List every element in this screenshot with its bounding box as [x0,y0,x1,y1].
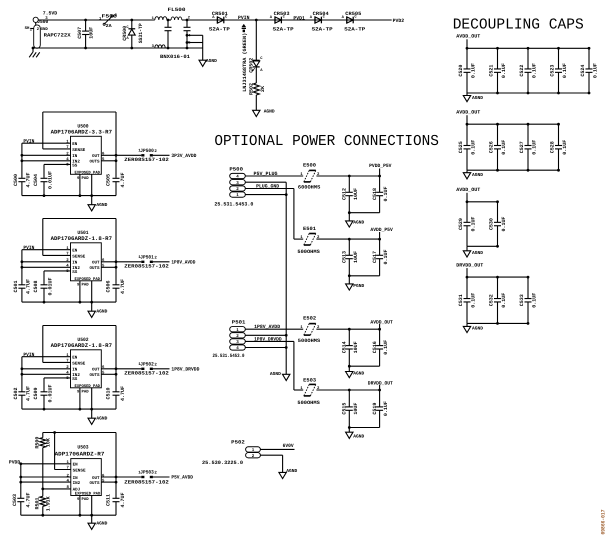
svg-text:DRVDD_OUT: DRVDD_OUT [368,380,393,386]
svg-text:PVD2: PVD2 [393,18,405,24]
svg-text:C505: C505 [106,174,112,186]
ground AGND of U500 [88,196,108,211]
svg-text:0.1UF: 0.1UF [501,140,507,155]
svg-text:EN: EN [73,463,79,468]
regulator U501 ADP1706ARDZ-1.8-R7 [51,230,112,302]
svg-text:AGND: AGND [353,433,364,439]
svg-text:JP501: JP501 [140,254,154,260]
capacitor C516 0.1UF [372,329,389,366]
svg-text:PVD1: PVD1 [293,15,305,21]
svg-text:E502: E502 [303,315,316,321]
ground AGND of U502 [88,409,108,424]
wire P500 pin2 to E501 [245,189,303,240]
svg-text:CR503: CR503 [274,11,290,17]
svg-text:C513: C513 [342,251,348,263]
svg-text:S2A-TP: S2A-TP [273,27,294,33]
svg-text:EXPOSED PAD: EXPOSED PAD [75,170,101,175]
svg-text:4.7UF: 4.7UF [120,173,126,188]
ground AGND group3 [346,366,365,378]
svg-text:S2A-TP: S2A-TP [209,27,230,33]
svg-text:JP500: JP500 [140,148,154,154]
svg-text:10UF: 10UF [353,251,359,263]
svg-text:AVDD_P5V: AVDD_P5V [370,227,392,233]
capacitor C521 0.1UF [489,48,508,93]
svg-text:AVDD_OUT: AVDD_OUT [370,319,392,325]
svg-text:PVIN: PVIN [238,15,250,21]
svg-text:SS: SS [72,163,78,168]
jumper JP502 [124,361,169,376]
capacitor C504 0.01UF [33,171,54,197]
svg-text:SS: SS [72,270,78,275]
svg-text:C525: C525 [458,141,464,153]
wire OUT of U500 [101,154,141,162]
svg-text:0.1UF: 0.1UF [501,63,507,78]
svg-text:SENSE: SENSE [72,148,85,153]
capacitor C529 0.1UF [458,202,477,247]
svg-text:C517: C517 [372,251,378,263]
svg-text:0.1UF: 0.1UF [532,63,538,78]
svg-text:PAD: PAD [82,176,90,181]
svg-text:0.1UF: 0.1UF [532,293,538,308]
regulator U503 ADP1706ARDZ-R7 [55,444,105,515]
ground chassis at J500 [29,48,40,57]
svg-text:C514: C514 [342,341,348,353]
svg-text:P500: P500 [229,166,243,172]
svg-text:25.531.5453.0: 25.531.5453.0 [213,353,245,359]
svg-text:10UF: 10UF [89,27,95,39]
wire sense loop of U500 [43,112,116,177]
capacitor C515 10UF [342,390,359,428]
fuse F500 2A [99,13,118,29]
svg-text:09866-017: 09866-017 [601,510,607,535]
wire P501 pin4 to gnd bus [245,346,287,349]
resistor R500 10K [35,437,52,449]
capacitor C532 0.1UF [489,277,508,323]
svg-text:OUT: OUT [92,476,100,481]
svg-text:2K: 2K [260,86,266,92]
svg-text:C526: C526 [489,141,495,153]
svg-text:AVDD_OUT: AVDD_OUT [456,34,480,40]
svg-text:C532: C532 [489,294,495,306]
svg-text:EN: EN [72,142,78,147]
svg-text:4.7UF: 4.7UF [26,173,32,188]
svg-text:AGND: AGND [353,220,364,226]
svg-text:ZER08S157-102: ZER08S157-102 [124,264,169,270]
svg-text:IN: IN [73,476,79,481]
svg-text:IN: IN [72,368,78,373]
jumper JP503 [124,470,169,486]
capacitor C506 4.7UF [106,279,127,302]
svg-text:GND: GND [41,27,49,32]
svg-text:0.1UF: 0.1UF [383,401,389,416]
capacitor C531 0.1UF [458,277,477,323]
svg-text:C501: C501 [13,281,19,293]
wire bottom rail of U501 [22,301,116,304]
svg-text:EN: EN [72,356,78,361]
wire E501 to caps [316,232,381,241]
svg-text:PVDD_P5V: PVDD_P5V [369,163,391,169]
svg-text:0.01UF: 0.01UF [48,385,54,403]
svg-text:0.1UF: 0.1UF [471,293,477,308]
svg-text:IN: IN [72,154,78,159]
ground AGND below R502 [253,95,275,117]
svg-text:PAD: PAD [82,282,90,287]
jumper JP501 [124,254,169,269]
wire sense loop of U503 [43,431,116,498]
ground AGND at P502 [279,468,298,478]
svg-text:0.1UF: 0.1UF [471,217,477,232]
svg-text:JP502: JP502 [140,361,154,367]
capacitor C505 4.7UF [106,173,127,196]
svg-text:AGND: AGND [472,95,483,101]
svg-text:SENSE: SENSE [72,361,85,366]
svg-text:OUT: OUT [92,154,100,159]
capacitor C500 4.7UF [13,173,32,196]
ground AGND group4 [346,428,365,440]
wire bottom rail group1 [348,211,380,214]
svg-text:RAPC722X: RAPC722X [44,33,71,39]
svg-text:0.1UF: 0.1UF [562,63,568,78]
svg-text:0.1UF: 0.1UF [501,293,507,308]
svg-text:AGND: AGND [96,520,107,526]
capacitor C511 4.7UF [106,493,127,516]
svg-text:4.7UF: 4.7UF [120,386,126,401]
svg-text:C520: C520 [458,65,464,77]
svg-text:R500: R500 [35,437,41,449]
capacitor C518 0.1UF [372,176,389,213]
svg-text:4.7UF: 4.7UF [26,493,32,508]
wire OUT of U503 [101,476,141,484]
svg-text:PGND: PGND [353,283,364,289]
svg-text:AGND: AGND [270,371,281,377]
svg-text:0.1UF: 0.1UF [383,187,389,202]
capacitor C525 0.1UF [458,124,477,170]
svg-text:C518: C518 [372,188,378,200]
ground PGND group2 [346,276,365,290]
svg-text:0.1UF: 0.1UF [593,63,599,78]
svg-text:CR502: CR502 [249,58,255,73]
svg-text:600OHMS: 600OHMS [298,184,320,190]
wire P501 pin1 to E502 [245,328,303,330]
LED CR502 LNJ314G8TRA GREEN [242,20,263,92]
svg-text:OPTIONAL POWER CONNECTIONS: OPTIONAL POWER CONNECTIONS [214,132,439,150]
capacitor C510 4.7UF [106,386,127,409]
svg-text:4.7UF: 4.7UF [120,279,126,294]
ground AGND AVDD_OUT group [463,170,483,179]
jumper JP500 [124,148,169,163]
svg-text:C508: C508 [33,281,39,293]
svg-text:C527: C527 [519,141,525,153]
svg-text:0.1UF: 0.1UF [383,250,389,265]
wire CR501 to junction [182,19,392,21]
wire rails AVDD_OUT group [466,123,560,172]
svg-text:PAD: PAD [82,497,90,502]
svg-text:SENSE: SENSE [72,254,85,259]
wire sense loop of U502 [43,326,116,391]
svg-text:6V0V: 6V0V [283,443,294,449]
wire input rails of U502 [21,357,71,391]
resistor R502 2K [249,83,266,95]
junction PVIN branch [255,19,258,22]
svg-text:C506: C506 [106,281,112,293]
wire top rail from J500 to fuse [38,19,100,21]
svg-text:R501: R501 [35,498,41,510]
connector P500 [214,166,253,207]
wire P502 pin2 to ground [260,455,282,472]
capacitor C524 0.1UF [580,48,599,93]
svg-text:C510: C510 [106,388,112,400]
wire bottom rail of U500 [22,194,116,197]
ground AGND mid bus [270,371,290,381]
svg-text:ADP1706ARDZ-R7: ADP1706ARDZ-R7 [55,451,105,458]
svg-text:7.5VD: 7.5VD [43,11,58,17]
capacitor C507 10UF [77,19,94,50]
svg-text:0.1UF: 0.1UF [471,140,477,155]
svg-text:1P8V_AVDD: 1P8V_AVDD [254,324,280,330]
wire ground bus from P500 pin3 and pin1 [245,182,287,374]
svg-text:S2A-TP: S2A-TP [312,27,333,33]
svg-text:AGND: AGND [472,172,483,178]
svg-text:500OHMS: 500OHMS [297,249,319,255]
svg-text:E500: E500 [303,163,316,169]
diode CR505 S2A-TP [342,11,366,32]
svg-text:OUTS: OUTS [89,266,100,271]
svg-text:AGND: AGND [264,109,275,115]
wire bottom rail group4 [348,426,380,429]
svg-text:4.7UF: 4.7UF [26,386,32,401]
wire rails DRVDD_OUT group [466,276,530,325]
svg-text:1.91K: 1.91K [46,496,52,511]
svg-text:ZER08S157-102: ZER08S157-102 [124,479,169,485]
wire bottom rail of U503 [21,514,116,517]
svg-text:10UF: 10UF [353,188,359,200]
wire bottom rail group3 [348,365,380,368]
capacitor C512 10UF [342,176,359,213]
svg-text:C528: C528 [550,141,556,153]
capacitor C526 0.1UF [489,124,508,170]
connector J500 power jack [25,11,71,49]
connector P501 [213,320,246,360]
svg-text:EN: EN [72,249,78,254]
svg-text:AGND: AGND [96,308,107,314]
svg-text:P501: P501 [232,320,246,326]
svg-text:PAD: PAD [82,389,90,394]
junction at J500 bottom [32,47,35,50]
capacitor C520 0.1UF [458,48,477,93]
svg-text:AGND: AGND [96,415,107,421]
svg-text:CR504: CR504 [313,11,329,17]
diode CR503 S2A-TP [270,11,294,33]
svg-text:500OHMS: 500OHMS [298,338,320,344]
svg-text:C533: C533 [519,294,525,306]
node DRVDD_OUT decoupling [456,263,483,278]
svg-text:0.01UF: 0.01UF [48,278,54,296]
svg-text:BNX016-01: BNX016-01 [160,54,190,60]
diode CR501 S2A-TP [209,11,230,32]
svg-text:C531: C531 [458,294,464,306]
svg-text:C522: C522 [519,65,525,77]
regulator U502 ADP1706ARDZ-1.8-R7 [51,337,112,409]
svg-text:AGND: AGND [472,326,483,332]
svg-text:ZER08S157-102: ZER08S157-102 [124,157,169,163]
svg-text:10UF: 10UF [353,403,359,415]
svg-text:C521: C521 [489,65,495,77]
svg-text:U503: U503 [77,444,88,450]
wire bottom rail group2 [348,274,380,277]
svg-text:C511: C511 [106,494,112,506]
ferrite bead E500 600OHMS [298,163,320,191]
svg-text:C515: C515 [342,403,348,415]
wire E500 to caps [316,169,381,178]
svg-text:C500: C500 [13,174,19,186]
capacitor C508 0.01UF [33,278,54,304]
svg-text:E503: E503 [303,378,316,384]
capacitor C514 10UF [342,329,359,366]
svg-text:OUT: OUT [92,261,100,266]
svg-text:25.531.5453.0: 25.531.5453.0 [214,202,253,208]
ground AGND group1 [346,213,365,227]
node PVIN [238,15,250,32]
regulator U500 ADP1706ARDZ-3.3-R7 [51,123,112,195]
svg-text:DECOUPLING CAPS: DECOUPLING CAPS [453,16,584,34]
svg-text:0.01UF: 0.01UF [48,171,54,189]
svg-text:AGND: AGND [353,370,364,376]
svg-text:C502: C502 [13,388,19,400]
capacitor C530 0.1UF [489,202,508,247]
wire OUT of U501 [101,260,141,268]
ground AGND of U501 [88,302,108,317]
capacitor C519 0.1UF [372,390,389,428]
capacitor C517 0.1UF [372,239,389,276]
node AVDD_OUT decoupling [456,110,480,125]
svg-text:1P8V_AVDD: 1P8V_AVDD [171,260,195,266]
svg-text:AGND: AGND [206,58,217,64]
svg-text:LNJ314G8TRA (GREEN): LNJ314G8TRA (GREEN) [242,33,248,92]
svg-text:FL500: FL500 [168,7,186,13]
capacitor C509 0.01UF [33,385,54,411]
wire rails AVDD_OUT group [466,200,499,247]
ground AGND at FL500 [199,48,217,66]
svg-text:IN2: IN2 [73,481,81,486]
wire P501 pin2 to gnd bus [245,334,287,337]
svg-text:C507: C507 [77,27,83,39]
svg-text:AVDD_OUT: AVDD_OUT [456,187,480,193]
svg-text:C509: C509 [33,388,39,400]
wire P502 pin1 [260,448,294,450]
diode CR500 SS31-TP shunt [122,19,144,50]
svg-text:500OHMS: 500OHMS [297,400,319,406]
capacitor C533 0.1UF [519,277,538,323]
svg-text:P502: P502 [231,440,245,446]
wire bottom rail of U502 [22,408,116,411]
capacitor C513 10UF [342,239,359,276]
wire input rails of U501 [21,250,71,284]
svg-text:AGND: AGND [472,250,483,256]
svg-text:0.1UF: 0.1UF [471,63,477,78]
svg-text:OUT: OUT [92,368,100,373]
svg-text:EXPOSED PAD: EXPOSED PAD [75,277,101,282]
svg-text:0.1UF: 0.1UF [501,217,507,232]
svg-text:SS31-TP: SS31-TP [138,23,144,43]
svg-text:E501: E501 [303,226,316,232]
connector P502 [202,440,260,466]
wire E503 to caps [316,385,381,391]
svg-text:JP503: JP503 [140,470,154,476]
diode CR504 S2A-TP [310,11,333,32]
svg-text:10K: 10K [46,438,52,447]
svg-text:C503: C503 [12,494,18,506]
svg-text:1P8V_DRVDD: 1P8V_DRVDD [254,336,282,342]
svg-text:ADP1706ARDZ-1.8-R7: ADP1706ARDZ-1.8-R7 [51,342,112,349]
svg-text:ZER08S157-102: ZER08S157-102 [124,371,169,377]
capacitor C501 4.7UF [13,279,32,302]
wire rails AVDD_OUT group [466,47,591,95]
capacitor C522 0.1UF [519,48,538,93]
wire fuse to FL500 [117,19,155,21]
ferrite bead E503 500OHMS [297,378,320,406]
svg-text:AGND: AGND [286,468,297,474]
svg-text:CR505: CR505 [345,11,361,17]
capacitor C502 4.7UF [13,386,32,409]
ground AGND AVDD_OUT group [463,246,483,257]
svg-text:OUTS: OUTS [89,373,100,378]
svg-text:10UF: 10UF [353,341,359,353]
ferrite bead E501 500OHMS [297,226,320,255]
svg-text:S2A-TP: S2A-TP [344,27,365,33]
capacitor C523 0.1UF [550,48,569,93]
wire P501 pin3 to E503 [245,341,303,390]
svg-text:C512: C512 [342,188,348,200]
svg-text:ADP1706ARDZ-1.8-R7: ADP1706ARDZ-1.8-R7 [51,235,112,242]
svg-text:C530: C530 [489,218,495,230]
svg-text:0.1UF: 0.1UF [562,140,568,155]
svg-text:OUTS: OUTS [89,481,100,486]
svg-text:EXPOSED PAD: EXPOSED PAD [75,384,101,389]
svg-text:2A: 2A [106,23,112,29]
svg-text:IN: IN [72,261,78,266]
wire E502 to caps [316,324,381,331]
svg-text:P5V_PLUG: P5V_PLUG [254,171,278,177]
wire input rails of U503 [19,462,70,498]
svg-text:ADP1706ARDZ-3.3-R7: ADP1706ARDZ-3.3-R7 [51,128,112,135]
svg-text:0.1UF: 0.1UF [532,140,538,155]
wire bottom rail of input section [33,47,203,49]
ground AGND DRVDD_OUT group [463,323,483,332]
svg-text:SS: SS [72,377,78,382]
svg-text:C504: C504 [33,174,39,186]
svg-text:4.7UF: 4.7UF [120,493,126,508]
svg-text:P5V_AVDD: P5V_AVDD [171,475,193,481]
wire OUT of U502 [101,367,141,375]
svg-text:25.530.3225.0: 25.530.3225.0 [202,460,243,466]
node AVDD_OUT decoupling [456,187,480,202]
svg-text:AGND: AGND [96,202,107,208]
node AVDD_OUT decoupling [456,34,480,49]
capacitor C527 0.1UF [519,124,538,170]
svg-text:C523: C523 [550,65,556,77]
svg-text:PLUG_GND: PLUG_GND [256,183,279,189]
svg-text:DRVDD_OUT: DRVDD_OUT [456,263,483,269]
svg-text:C516: C516 [372,341,378,353]
wire P500 pin4 to E500 [245,175,303,177]
svg-text:3P3V_AVDD: 3P3V_AVDD [171,153,196,159]
svg-text:C524: C524 [580,65,586,77]
svg-text:1P8V_DRVDD: 1P8V_DRVDD [171,367,199,373]
resistor R501 1.91K [35,488,52,517]
svg-text:C529: C529 [458,218,464,230]
svg-text:PVDD: PVDD [9,459,20,465]
svg-text:4.7UF: 4.7UF [26,279,32,294]
